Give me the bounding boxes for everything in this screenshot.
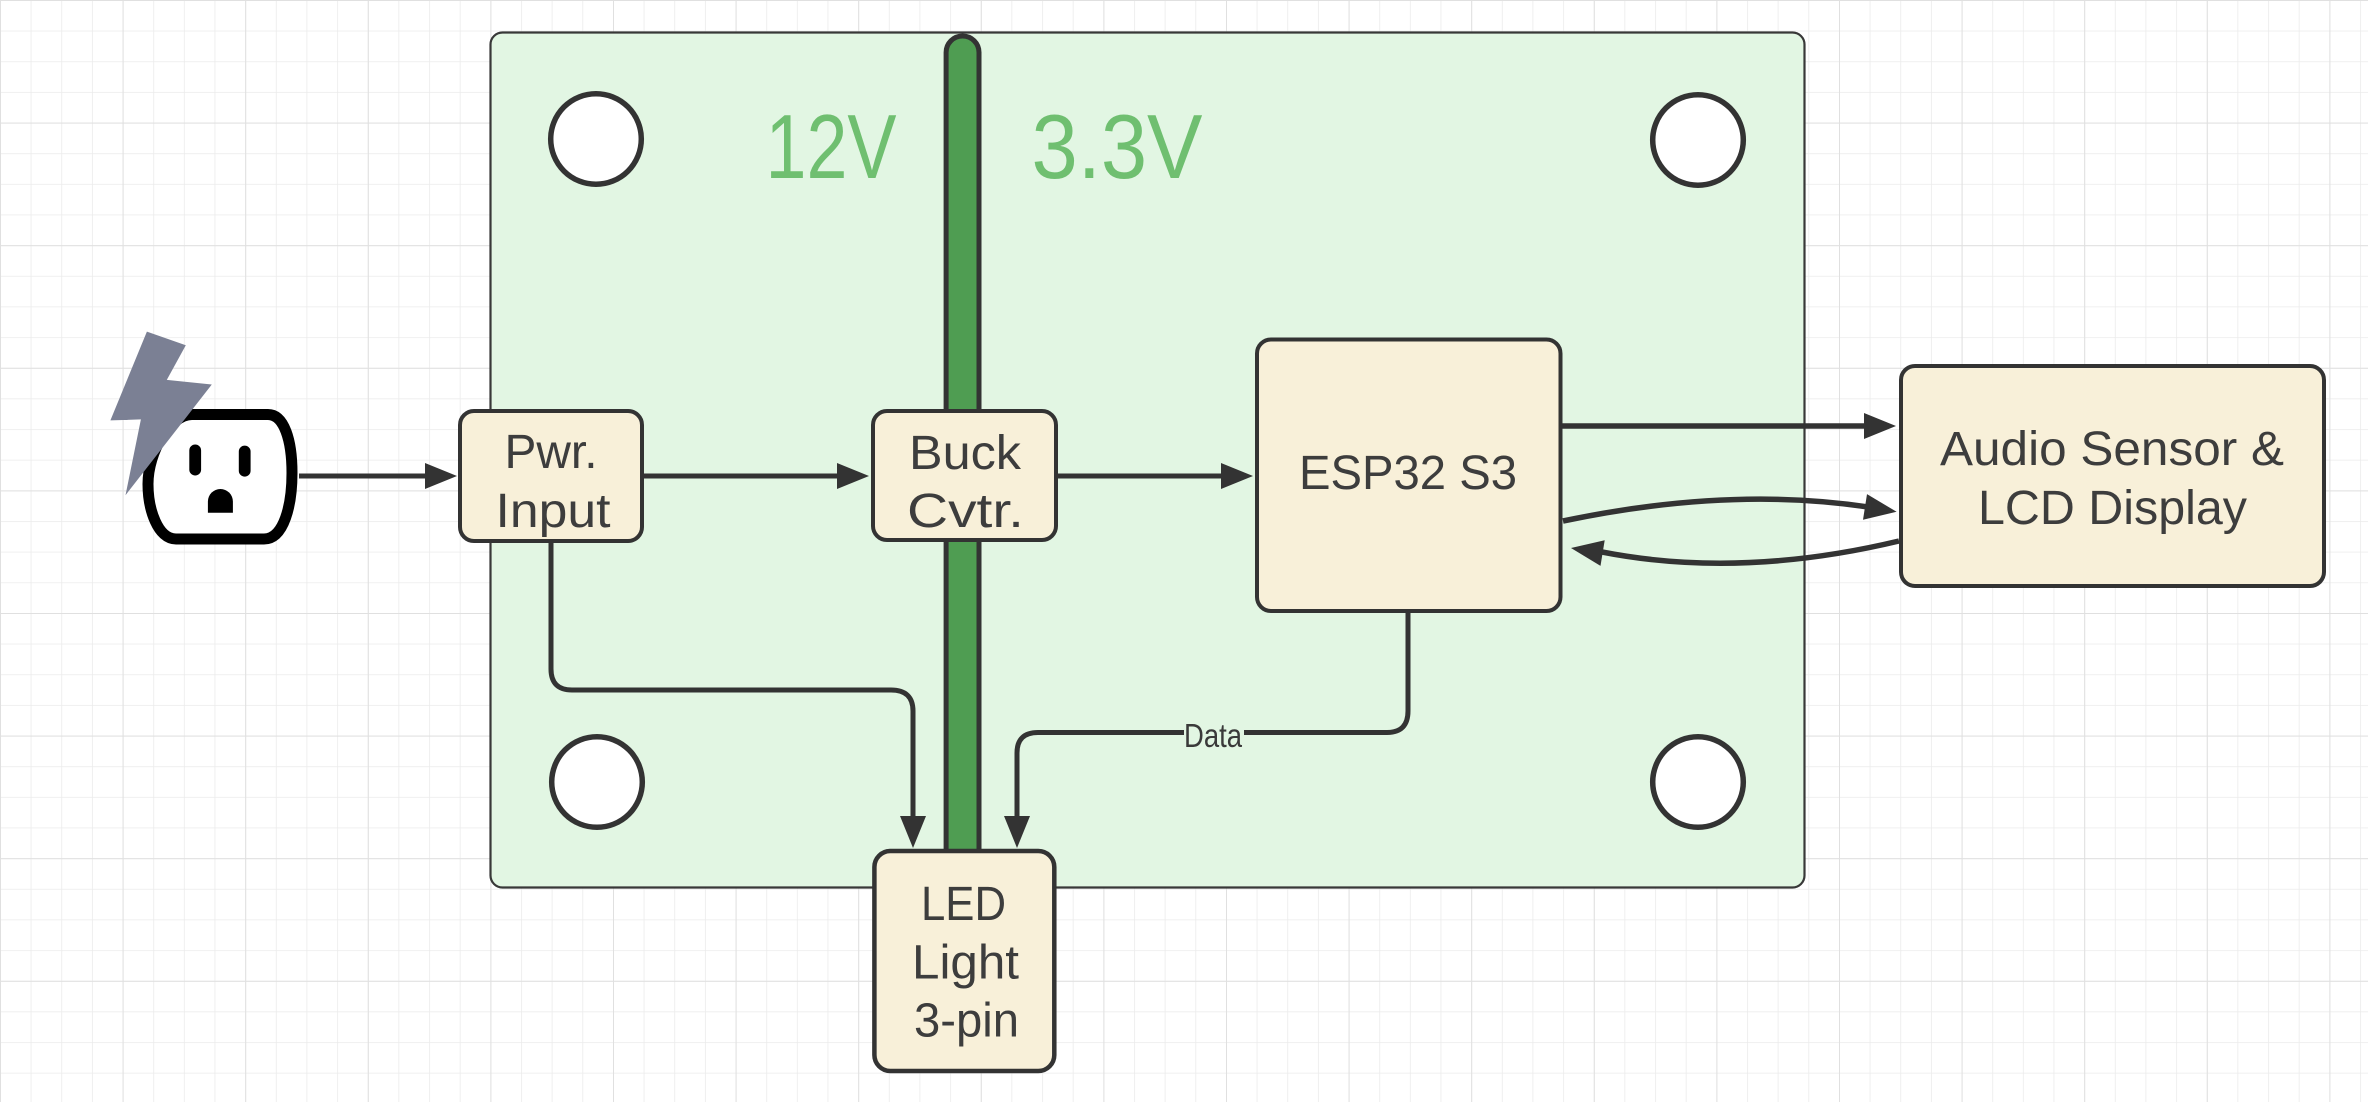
svg-text:3.3V: 3.3V <box>1032 97 1203 198</box>
svg-text:Audio Sensor &: Audio Sensor & <box>1940 423 2284 476</box>
mounting hole top-right <box>1653 95 1744 186</box>
PCB board outline <box>491 33 1805 888</box>
svg-text:3-pin: 3-pin <box>914 995 1019 1048</box>
svg-text:LCD Display: LCD Display <box>1978 482 2247 535</box>
component box: ESP32 S3 <box>1257 340 1561 612</box>
svg-text:12V: 12V <box>766 97 897 198</box>
wire: Pwr. Input down to LED Light <box>551 543 926 848</box>
wire: ESP32 S3 to Audio Sensor (upper curve) <box>1563 494 1897 521</box>
svg-text:Buck: Buck <box>909 427 1022 480</box>
wire: Pwr. Input to Buck Cvtr. <box>644 463 869 489</box>
power outlet icon <box>148 415 292 540</box>
wire: outlet to Pwr. Input <box>299 463 457 489</box>
mounting hole top-left <box>551 94 642 185</box>
svg-text:Data: Data <box>1184 717 1243 754</box>
12V/3.3V green power rail divider <box>946 36 979 870</box>
svg-text:Input: Input <box>496 485 611 538</box>
wire: Buck Cvtr. to ESP32 S3 <box>1058 463 1253 489</box>
mounting hole bottom-left <box>552 737 643 828</box>
component box: Buck Cvtr. <box>873 411 1056 540</box>
wire: Audio Sensor to ESP32 S3 (lower return curve) <box>1571 540 1899 566</box>
mounting hole bottom-right <box>1653 737 1744 828</box>
svg-text:LED: LED <box>921 878 1006 931</box>
svg-text:Cvtr.: Cvtr. <box>907 485 1024 538</box>
component box: Pwr. Input <box>460 411 642 541</box>
component box: LED Light 3-pin <box>874 851 1054 1071</box>
wire: ESP32 S3 to Audio Sensor (straight) <box>1562 413 1896 439</box>
lightning bolt <box>110 332 211 496</box>
svg-text:Light: Light <box>912 937 1019 990</box>
svg-text:Pwr.: Pwr. <box>505 426 598 479</box>
svg-text:ESP32 S3: ESP32 S3 <box>1299 447 1517 500</box>
wire: ESP32 S3 data line to LED Light <box>1004 613 1408 848</box>
component box: Audio Sensor and LCD Display <box>1901 366 2324 586</box>
